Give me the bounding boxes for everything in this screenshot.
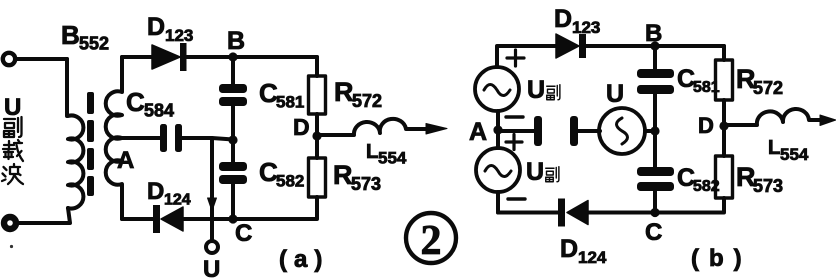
label R572 (b) bbox=[736, 64, 783, 98]
circuit b: wire top-left bbox=[497, 46, 556, 67]
svg-text:123: 123 bbox=[165, 26, 193, 45]
label U sub top (b) bbox=[527, 76, 560, 104]
resistor R572 (b) bbox=[716, 60, 733, 100]
wire mid branch (a) bbox=[231, 57, 235, 84]
svg-text:U: U bbox=[526, 158, 544, 186]
wire top rail (a) bbox=[122, 55, 153, 59]
wire bbox=[233, 197, 317, 219]
arrow down U branch (a) bbox=[208, 198, 217, 211]
svg-text:2: 2 bbox=[421, 218, 442, 264]
svg-text:U: U bbox=[606, 80, 624, 108]
diode D124 (b) bbox=[498, 199, 588, 227]
diode D123 (b) bbox=[556, 34, 724, 58]
wire U branch (a) bbox=[210, 138, 214, 241]
inductor L554 (b) bbox=[727, 109, 822, 125]
svg-text:D: D bbox=[293, 114, 310, 140]
capacitor C582 (a) bbox=[219, 162, 247, 184]
wire mid branch (b) bbox=[653, 46, 657, 69]
label L554 (b) bbox=[768, 137, 809, 164]
label U sub bottom (b) bbox=[526, 158, 559, 186]
wire node A tap (a) bbox=[122, 136, 160, 140]
svg-text:A: A bbox=[117, 147, 134, 174]
label D123 (b) bbox=[554, 5, 600, 37]
wire bottom rail left (a) bbox=[122, 217, 154, 221]
label B552 transformer bbox=[61, 20, 109, 54]
terminal U (a) bbox=[206, 241, 218, 253]
svg-text:C: C bbox=[126, 87, 145, 117]
wire bbox=[722, 100, 726, 156]
wire bbox=[653, 191, 657, 213]
label R573 (b) bbox=[736, 162, 783, 196]
svg-text:D: D bbox=[147, 178, 164, 205]
svg-text:584: 584 bbox=[144, 101, 174, 121]
wire bbox=[722, 46, 726, 60]
speck bbox=[10, 245, 13, 248]
transformer B552 secondary winding bbox=[106, 57, 122, 219]
wire bbox=[231, 184, 235, 219]
inductor L554 (a) bbox=[317, 119, 429, 135]
svg-text:R: R bbox=[333, 160, 353, 190]
wire bbox=[231, 106, 235, 162]
node A (b) bbox=[493, 125, 502, 134]
minus sign above A (b) bbox=[506, 115, 523, 118]
node junction C581/C582 (a) bbox=[228, 135, 237, 144]
svg-text:U: U bbox=[527, 76, 545, 104]
svg-text:124: 124 bbox=[578, 248, 607, 267]
ac source U sub bottom (b) bbox=[476, 148, 520, 192]
wire bbox=[588, 198, 724, 213]
label U subcarrier vertical (a) bbox=[2, 94, 23, 184]
wire bbox=[653, 94, 657, 167]
terminal input bottom (a) bbox=[4, 217, 16, 229]
svg-text:(b): (b) bbox=[691, 245, 752, 272]
sine in source U (b) bbox=[617, 118, 628, 144]
node C (b) bbox=[650, 208, 659, 217]
hanzi fu small bottom bbox=[546, 167, 559, 182]
capacitor C582 (b) bbox=[637, 167, 674, 191]
svg-text:582: 582 bbox=[693, 178, 720, 195]
label R573 (a) bbox=[333, 160, 381, 194]
circled figure number 2 bbox=[406, 213, 456, 263]
label C581 (a) bbox=[259, 78, 304, 112]
terminal input top (a) bbox=[3, 53, 15, 65]
wire bbox=[182, 138, 233, 140]
label D124 (b) bbox=[560, 235, 607, 267]
label L554 (a) bbox=[366, 141, 407, 168]
resistor R573 (b) bbox=[716, 156, 733, 198]
svg-text:L: L bbox=[768, 137, 780, 159]
svg-text:B: B bbox=[645, 20, 662, 47]
diode D124 (a) bbox=[153, 205, 233, 233]
hanzi zai bbox=[3, 140, 23, 161]
wire bbox=[65, 59, 69, 116]
label C584 bbox=[126, 87, 174, 121]
ac source U (b) bbox=[599, 108, 645, 154]
resistor R572 (a) bbox=[309, 76, 326, 114]
minus sign below bottom source (b) bbox=[508, 197, 525, 200]
svg-text:573: 573 bbox=[351, 174, 381, 194]
svg-text:554: 554 bbox=[780, 145, 809, 164]
sine in bottom source (b) bbox=[485, 166, 511, 177]
svg-text:U: U bbox=[203, 256, 220, 279]
label R572 (a) bbox=[334, 77, 382, 111]
transformer B552 core bbox=[87, 92, 94, 196]
svg-text:572: 572 bbox=[352, 91, 382, 111]
label C581 (b) bbox=[677, 65, 720, 96]
wire bbox=[315, 114, 319, 158]
diode D123 (a) bbox=[152, 43, 317, 71]
svg-text:(a): (a) bbox=[279, 246, 329, 273]
label D124 (a) bbox=[147, 178, 191, 209]
arrow output (b) bbox=[820, 115, 836, 126]
svg-text:L: L bbox=[366, 141, 378, 163]
wire bbox=[16, 208, 70, 223]
label C582 (b) bbox=[677, 164, 720, 195]
label C582 (a) bbox=[259, 157, 304, 191]
svg-text:123: 123 bbox=[572, 18, 600, 37]
wire bbox=[645, 129, 655, 133]
svg-text:582: 582 bbox=[276, 172, 304, 191]
wire bbox=[578, 129, 600, 133]
transformer B552 primary winding bbox=[68, 116, 83, 209]
svg-text:C: C bbox=[645, 219, 662, 246]
svg-text:U: U bbox=[4, 94, 21, 121]
node junction C581/C582 (b) bbox=[650, 126, 659, 135]
svg-text:B: B bbox=[227, 27, 245, 55]
capacitor C584 (a) bbox=[160, 124, 182, 152]
svg-text:B: B bbox=[61, 20, 80, 50]
svg-text:581: 581 bbox=[693, 79, 720, 96]
sine in top source (b) bbox=[484, 85, 510, 96]
svg-text:R: R bbox=[334, 77, 354, 107]
svg-text:124: 124 bbox=[164, 192, 191, 209]
svg-text:A: A bbox=[469, 118, 487, 146]
svg-text:D: D bbox=[560, 235, 578, 263]
wire A to capacitor (b) bbox=[498, 129, 534, 133]
svg-text:552: 552 bbox=[79, 34, 109, 54]
wire bbox=[15, 57, 67, 61]
node D (b) bbox=[719, 121, 728, 130]
wire bbox=[315, 57, 319, 76]
node B (a) bbox=[228, 52, 237, 61]
resistor R573 (a) bbox=[309, 158, 326, 197]
hanzi bo bbox=[2, 164, 23, 184]
svg-text:581: 581 bbox=[276, 93, 304, 112]
ac source U sub top (b) bbox=[475, 67, 519, 111]
svg-text:C: C bbox=[235, 220, 252, 247]
svg-text:554: 554 bbox=[378, 149, 407, 168]
hanzi fu small top bbox=[547, 85, 560, 100]
wire bbox=[496, 192, 500, 213]
svg-text:D: D bbox=[698, 113, 714, 138]
svg-text:D: D bbox=[147, 13, 165, 41]
node C (a) bbox=[228, 214, 237, 223]
plus sign below A (b) bbox=[506, 135, 522, 150]
node B (b) bbox=[650, 41, 659, 50]
svg-text:572: 572 bbox=[753, 78, 783, 98]
node D (a) bbox=[312, 131, 321, 140]
svg-text:573: 573 bbox=[753, 176, 783, 196]
hanzi fu bbox=[4, 117, 22, 137]
capacitor C581 (b) bbox=[637, 69, 674, 94]
arrow output (a) bbox=[426, 124, 447, 135]
plus sign top (b) bbox=[507, 50, 524, 66]
label D123 (a) bbox=[147, 13, 193, 45]
capacitor C581 (a) bbox=[219, 84, 247, 106]
capacitor between A and U (b) bbox=[534, 116, 578, 146]
wire bbox=[496, 111, 500, 148]
svg-text:D: D bbox=[554, 5, 572, 33]
